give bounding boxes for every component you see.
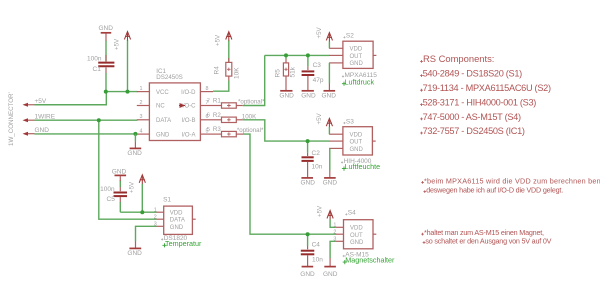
svg-text:VDD: VDD — [350, 226, 363, 232]
svg-text:*beim MPXA6115 wird die VDD zu: *beim MPXA6115 wird die VDD zum berechne… — [424, 176, 600, 185]
svg-text:+5V: +5V — [316, 112, 323, 124]
ground below S1 — [127, 248, 142, 257]
svg-text:I/O-B: I/O-B — [181, 118, 195, 124]
svg-text:47p: 47p — [313, 77, 324, 84]
svg-text:10n: 10n — [312, 163, 323, 170]
svg-text:+5V: +5V — [129, 181, 136, 193]
wire 1WIRE drop to S1 DATA — [99, 120, 157, 219]
svg-text:51k: 51k — [290, 66, 297, 77]
resistor R2 (pin6, 100K) — [207, 112, 257, 123]
svg-text:GND: GND — [301, 93, 316, 100]
svg-text:C5: C5 — [107, 196, 116, 203]
junction dot C3 top — [306, 53, 310, 57]
svg-text:GND: GND — [127, 150, 142, 157]
svg-text:VDD: VDD — [350, 133, 363, 139]
svg-text:2: 2 — [333, 229, 336, 235]
svg-text:GND: GND — [300, 271, 315, 278]
+5V supply above S4 — [317, 205, 336, 227]
svg-text:deswegen habe ich auf I/O-D di: deswegen habe ich auf I/O-D die VDD gele… — [426, 185, 563, 194]
sensor S1 DS1820 — [154, 197, 202, 248]
pin 2 NC — [137, 105, 150, 107]
ground above C1 — [99, 25, 114, 41]
pin 8 I/O-D — [200, 91, 213, 93]
pin 3 DATA — [137, 119, 150, 121]
pin 6 I/O-B — [200, 119, 213, 121]
svg-text:*optional*: *optional* — [238, 98, 265, 105]
cursor arrow over I/O-C — [179, 103, 185, 108]
svg-text:Temperatur: Temperatur — [165, 239, 202, 248]
+5V supply above R4 — [215, 32, 232, 46]
svg-text:*optional*: *optional* — [237, 127, 264, 134]
svg-text:540-2849 - DS18S20 (S1): 540-2849 - DS18S20 (S1) — [423, 69, 523, 79]
svg-text:VCC: VCC — [156, 90, 169, 96]
pin 7 I/O-C — [200, 105, 213, 107]
svg-text:5: 5 — [207, 127, 210, 133]
wire GND row to pin4 — [35, 133, 137, 135]
svg-text:I/O-C: I/O-C — [181, 104, 196, 110]
+5V supply above S1 — [129, 175, 146, 212]
capacitor C3 — [302, 55, 324, 90]
wire S3 OUT row — [308, 140, 330, 142]
svg-text:10K: 10K — [234, 67, 241, 79]
resistor R3 (pin5, optional) — [207, 126, 264, 137]
svg-text:GND: GND — [322, 93, 337, 100]
svg-text:C4: C4 — [312, 242, 321, 249]
svg-text:6: 6 — [207, 113, 210, 119]
junction dot GND pin4 — [133, 132, 137, 136]
svg-text:DATA: DATA — [156, 118, 171, 124]
ground below S3 wire — [323, 178, 338, 187]
svg-text:732-7557 - DS2450S (IC1): 732-7557 - DS2450S (IC1) — [423, 126, 525, 136]
origin tick MPXA6115 — [342, 75, 344, 77]
svg-text:Luftfeuchte: Luftfeuchte — [345, 162, 381, 171]
svg-text:3: 3 — [140, 114, 143, 120]
svg-text:Magnetschalter: Magnetschalter — [345, 256, 395, 265]
svg-text:GND: GND — [156, 132, 170, 138]
wire S4 GND to ground — [330, 241, 336, 266]
note RS Components list — [420, 53, 551, 136]
wire S2 GND to ground — [328, 63, 330, 90]
origin tick S4lbl — [345, 213, 347, 215]
svg-text:C3: C3 — [313, 62, 322, 69]
junction dot C2 top — [306, 139, 310, 143]
note about MPXA6115 — [421, 176, 600, 194]
svg-text:C2: C2 — [312, 150, 321, 157]
wire S3 GND to ground — [329, 148, 331, 177]
svg-text:8: 8 — [206, 86, 209, 92]
svg-text:R1: R1 — [213, 98, 221, 105]
svg-text:R5: R5 — [275, 69, 282, 78]
svg-text:OUT: OUT — [350, 140, 363, 146]
wire S4 OUT row — [308, 233, 336, 235]
svg-text:S2: S2 — [346, 33, 354, 40]
svg-text:GND: GND — [350, 240, 364, 246]
pin 5 I/O-A — [200, 133, 213, 135]
svg-text:528-3171 - HIH4000-001 (S3): 528-3171 - HIH4000-001 (S3) — [423, 98, 537, 108]
ground below S2 — [322, 91, 337, 100]
svg-text:1: 1 — [140, 86, 143, 92]
svg-text:2: 2 — [154, 215, 157, 221]
origin tick S2lbl — [343, 36, 345, 38]
sensor S4 AS-M15 — [333, 210, 395, 265]
capacitor C5 — [100, 180, 127, 212]
svg-text:100n: 100n — [100, 186, 115, 193]
junction dot C1/VCC — [104, 90, 108, 94]
capacitor C1 — [87, 41, 114, 92]
+5V supply above S2 — [316, 26, 333, 48]
svg-text:Luftdruck: Luftdruck — [345, 77, 375, 86]
svg-text:R3: R3 — [213, 126, 221, 133]
resistor R5 — [275, 55, 297, 90]
svg-text:I/O-D: I/O-D — [181, 90, 196, 96]
svg-text:747-5000 - AS-M15T (S4): 747-5000 - AS-M15T (S4) — [423, 112, 521, 122]
svg-text:R4: R4 — [214, 66, 221, 75]
ground below C4 — [300, 267, 315, 279]
svg-text:OUT: OUT — [350, 54, 363, 60]
wire R1 to S2 OUT — [243, 55, 265, 105]
origin tick DS1820 — [161, 238, 163, 240]
svg-text:+5V: +5V — [317, 205, 324, 217]
svg-text:GND: GND — [35, 127, 50, 134]
connector pin 1WIRE — [23, 114, 56, 123]
ground below S4 wire — [323, 267, 338, 279]
svg-text:100n: 100n — [87, 55, 102, 62]
svg-text:+5V: +5V — [35, 98, 47, 105]
svg-text:GND: GND — [99, 25, 114, 32]
IC op U1 IC1 DS2450S — [137, 68, 213, 140]
origin tick HIH-4000 — [341, 161, 343, 163]
origin tick S3lbl — [343, 122, 345, 124]
ground below C3 — [301, 91, 316, 100]
wire S2 OUT row — [265, 54, 330, 56]
svg-text:GND: GND — [301, 180, 316, 187]
junction dot 1WIRE drop — [97, 118, 101, 122]
svg-text:1WIRE: 1WIRE — [35, 114, 56, 121]
note about AS-M15 — [421, 228, 551, 245]
svg-text:4: 4 — [140, 129, 143, 135]
origin tick AS-M15 — [343, 255, 345, 257]
wire C5/+5V to S1 VDD — [120, 211, 156, 213]
wire S1 GND to ground — [136, 226, 157, 248]
sensor S3 HIH-4000 — [329, 118, 380, 171]
+5V supply above S3 — [316, 112, 333, 134]
capacitor C2 — [302, 141, 323, 177]
connector 1W_CONNECTOR label — [8, 92, 15, 146]
svg-text:GND: GND — [127, 250, 142, 257]
+5V supply near C1 — [114, 32, 131, 92]
svg-text:GND: GND — [279, 93, 294, 100]
ground below IC pin4 — [127, 134, 142, 157]
svg-text:S3: S3 — [346, 118, 354, 125]
svg-text:RS Components:: RS Components: — [423, 53, 494, 64]
svg-text:DATA: DATA — [170, 218, 185, 224]
wire 1WIRE row to DATA pin3 — [35, 119, 138, 121]
junction dot S1 VDD — [140, 210, 144, 214]
wire VCC bus row pin1 — [106, 91, 138, 93]
wire R2 to S3 OUT — [243, 120, 308, 141]
svg-text:1W_CONNECTOR’: 1W_CONNECTOR’ — [8, 92, 15, 146]
svg-text:DS2450S: DS2450S — [156, 74, 183, 81]
ground below C2 — [301, 178, 316, 187]
svg-text:7: 7 — [207, 98, 210, 104]
svg-text:I/O-A: I/O-A — [181, 132, 195, 138]
connector pin +5V — [23, 98, 47, 107]
svg-text:+5V: +5V — [114, 38, 121, 50]
junction dot R5 top — [284, 53, 288, 57]
ground above C5 — [112, 168, 127, 181]
capacitor C4 — [301, 234, 323, 266]
svg-text:C1: C1 — [93, 66, 102, 73]
sensor S2 MPXA6115 — [329, 33, 377, 87]
svg-text:GND: GND — [323, 271, 338, 278]
junction dot +5V arrow/VCC — [126, 90, 130, 94]
svg-text:+5V: +5V — [316, 26, 323, 38]
svg-text:GND: GND — [170, 225, 184, 231]
resistor R1 (pin7, optional) — [207, 98, 265, 109]
svg-text:S1: S1 — [163, 197, 171, 204]
svg-text:NC: NC — [156, 104, 165, 110]
svg-text:S4: S4 — [348, 210, 356, 217]
svg-text:10n: 10n — [312, 256, 323, 263]
svg-text:+5V: +5V — [215, 34, 222, 46]
svg-text:719-1134 - MPXA6115AC6U (S2): 719-1134 - MPXA6115AC6U (S2) — [423, 83, 551, 93]
svg-text:OUT: OUT — [350, 233, 363, 239]
svg-text:GND: GND — [112, 168, 127, 175]
svg-text:GND: GND — [350, 61, 364, 67]
pin 4 GND — [137, 133, 150, 135]
wire R3 to S4 OUT — [243, 134, 308, 234]
svg-text:GND: GND — [323, 180, 338, 187]
svg-text:GND: GND — [350, 147, 364, 153]
svg-text:2: 2 — [140, 100, 143, 106]
resistor R4 — [213, 40, 241, 91]
svg-text:R2: R2 — [213, 112, 221, 119]
wire +5V from connector to IC pin1 column — [35, 92, 107, 105]
connector pin GND — [23, 127, 50, 136]
junction dot C4 top — [306, 232, 310, 236]
ground below R5 — [279, 91, 294, 100]
svg-text:VDD: VDD — [170, 211, 183, 217]
pin 1 VCC — [137, 91, 150, 93]
svg-text:so schaltet er den Ausgang von: so schaltet er den Ausgang von 5V auf 0V — [425, 236, 551, 245]
svg-text:VDD: VDD — [350, 47, 363, 53]
